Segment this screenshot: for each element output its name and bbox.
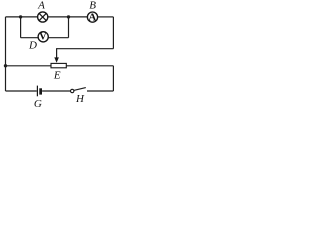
svg-text:B: B	[89, 0, 96, 12]
wire: slider feed horizontal	[57, 48, 114, 50]
svg-text:E: E	[53, 69, 61, 81]
node: junction dot left rheostat branch	[4, 64, 7, 67]
wire: to voltmeter left	[21, 37, 38, 39]
rheostat E body	[51, 63, 66, 67]
node: junction dot top-left branch	[19, 15, 22, 18]
wire: switch to battery	[42, 90, 70, 92]
battery G negative plate (short thick)	[39, 88, 42, 94]
rheostat slider arrow	[54, 48, 59, 63]
svg-text:A: A	[88, 11, 96, 23]
wire: voltmeter branch right vertical	[68, 17, 70, 38]
wire: lamp to ammeter	[48, 16, 87, 18]
wire: bottom right to switch	[87, 90, 113, 92]
wire: right vertical upper segment	[112, 17, 114, 49]
wire: rheostat right terminal to right edge	[66, 65, 113, 67]
node: junction dot voltmeter right branch	[67, 15, 70, 18]
voltmeter D (circle with V)	[38, 32, 48, 43]
svg-text:V: V	[39, 32, 47, 43]
switch H	[71, 88, 86, 93]
wire: right vertical lower segment	[112, 66, 114, 91]
svg-text:D: D	[28, 39, 37, 51]
svg-text:H: H	[75, 93, 85, 105]
wire: to rheostat left terminal	[6, 65, 52, 67]
battery G positive plate (long thin)	[36, 86, 38, 97]
ammeter B (circle with A)	[87, 11, 97, 23]
wire: top-left horizontal to lamp	[6, 16, 38, 18]
svg-text:G: G	[34, 98, 42, 108]
wire: voltmeter right to branch vertical	[48, 37, 68, 39]
lamp A (circle with X)	[38, 12, 48, 22]
wire: battery to bottom-left corner	[6, 90, 37, 92]
wire: voltmeter branch left vertical	[20, 17, 22, 38]
wire: left vertical	[5, 17, 7, 91]
svg-text:A: A	[37, 0, 45, 12]
wire: ammeter to top-right corner	[98, 16, 114, 18]
